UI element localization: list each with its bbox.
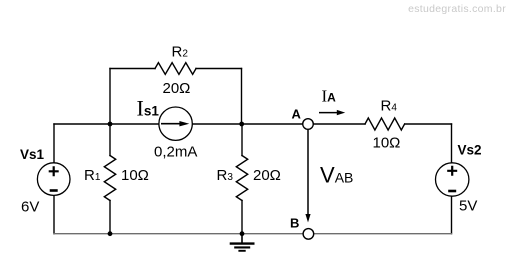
wire bottom bus right segment xyxy=(314,233,452,235)
svg-text:20Ω: 20Ω xyxy=(253,167,281,184)
resistor R1 xyxy=(104,156,115,201)
wire right rail upper xyxy=(451,124,453,163)
wire main bus left segment xyxy=(54,123,159,125)
node junction dot (R1/bottom bus) xyxy=(108,231,113,236)
wire R3 branch lower xyxy=(241,201,243,234)
resistor R3 xyxy=(236,156,247,201)
svg-text:Vs1: Vs1 xyxy=(20,147,45,162)
voltage source Vs2 xyxy=(436,163,469,196)
current source Is1 xyxy=(159,107,192,140)
wire bottom bus left segment xyxy=(54,233,303,235)
wire main bus middle segment xyxy=(192,123,302,125)
wire left rail lower xyxy=(53,195,55,233)
wire top branch right horizontal xyxy=(196,68,242,70)
wire left rail upper xyxy=(53,124,55,163)
ground xyxy=(230,234,255,251)
resistor R2 xyxy=(155,63,196,75)
svg-text:R3: R3 xyxy=(217,167,234,184)
svg-text:6V: 6V xyxy=(21,199,39,216)
wire main bus node A to R4 xyxy=(313,123,365,125)
wire right rail lower xyxy=(451,196,453,234)
svg-text:estudegratis.com.br: estudegratis.com.br xyxy=(408,3,506,15)
svg-text:R2: R2 xyxy=(172,44,189,61)
node junction dot (R2/R3/bus right) xyxy=(239,122,244,127)
wire top branch left vertical xyxy=(109,69,111,125)
svg-text:10Ω: 10Ω xyxy=(121,167,149,184)
wire R3 branch upper xyxy=(241,124,243,156)
node B terminal xyxy=(303,229,314,240)
svg-text:B: B xyxy=(290,216,299,231)
arrow VAB (A to B) xyxy=(305,130,310,223)
svg-text:A: A xyxy=(292,107,302,122)
wire R1 branch upper xyxy=(109,124,111,156)
node junction dot (R3/ground/bottom bus) xyxy=(240,231,245,236)
resistor R4 xyxy=(365,118,405,130)
wire top branch right vertical xyxy=(241,69,243,125)
svg-text:0,2mA: 0,2mA xyxy=(154,144,197,161)
svg-text:VAB: VAB xyxy=(320,162,353,187)
node A terminal xyxy=(303,119,314,130)
svg-text:5V: 5V xyxy=(459,198,477,215)
wire R4 to right rail xyxy=(405,123,452,125)
node junction dot (R2/R1/bus left) xyxy=(108,122,113,127)
svg-text:R1: R1 xyxy=(84,167,101,184)
wire top branch left horizontal xyxy=(110,68,155,70)
svg-text:R4: R4 xyxy=(381,97,398,114)
svg-text:20Ω: 20Ω xyxy=(163,80,191,97)
arrow IA xyxy=(319,110,345,115)
svg-text:10Ω: 10Ω xyxy=(373,134,401,151)
wire R1 branch lower xyxy=(109,201,111,234)
svg-text:Vs2: Vs2 xyxy=(458,143,482,158)
svg-text:Is1: Is1 xyxy=(137,96,160,121)
svg-text:IA: IA xyxy=(322,86,337,105)
voltage source Vs1 xyxy=(37,163,70,196)
